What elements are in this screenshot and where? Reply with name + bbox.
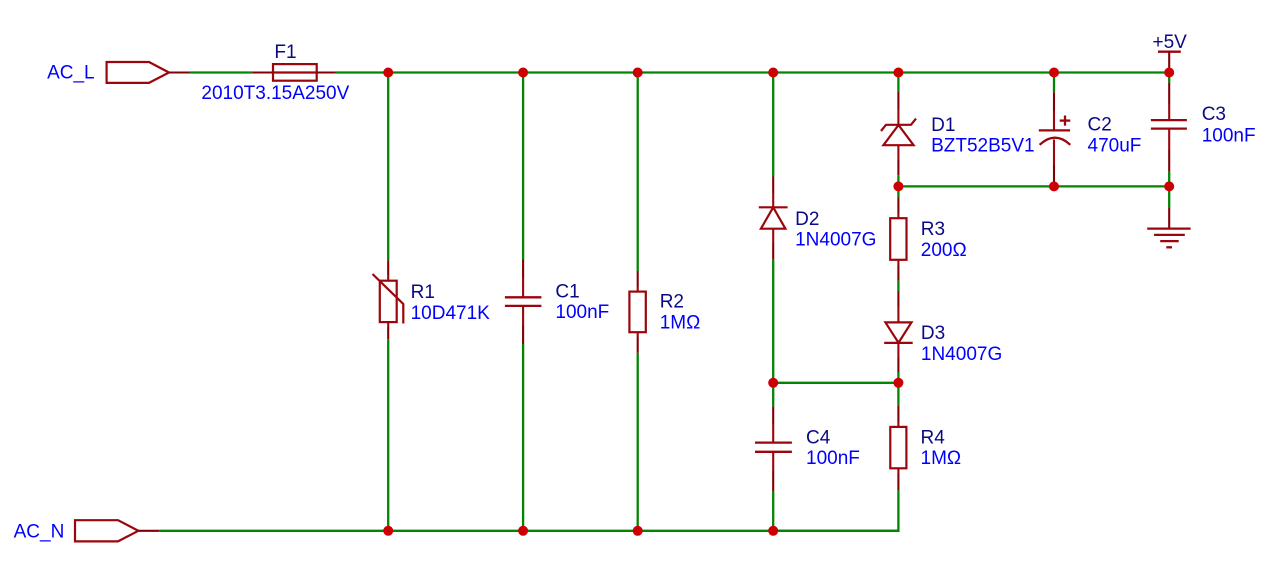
svg-text:C3: C3 <box>1202 104 1226 125</box>
junction node (388.2,530.8) <box>383 526 393 536</box>
svg-text:1N4007G: 1N4007G <box>795 230 876 251</box>
ground bar 4 <box>1166 246 1172 248</box>
wire mid horizontal <box>898 185 1169 187</box>
wire bottom main <box>159 530 898 532</box>
varistor R1 body <box>380 281 397 322</box>
svg-text:100nF: 100nF <box>1202 126 1256 147</box>
port AC_N <box>75 520 138 541</box>
resistor R2 body <box>629 292 645 333</box>
wire C3 bottom <box>1168 171 1170 186</box>
svg-text:470uF: 470uF <box>1088 135 1142 156</box>
svg-text:F1: F1 <box>274 42 296 63</box>
wire R2 branch bottom <box>637 353 639 531</box>
svg-text:C4: C4 <box>806 427 831 448</box>
pin of AC_N <box>138 530 159 532</box>
svg-text:C2: C2 <box>1088 114 1112 135</box>
capacitor C1 plates <box>505 296 542 298</box>
wire C4 top <box>772 383 774 407</box>
svg-text:AC_N: AC_N <box>14 521 65 542</box>
svg-text:D1: D1 <box>931 115 955 136</box>
wire R4 top <box>897 383 899 406</box>
wire D1 branch top <box>897 73 899 93</box>
junction node (898.4,72.5) <box>893 68 903 78</box>
wire D3 bottom <box>897 372 899 383</box>
svg-text:2010T3.15A250V: 2010T3.15A250V <box>201 83 349 104</box>
diode D2 anode pin <box>772 229 774 243</box>
svg-text:D2: D2 <box>795 209 819 230</box>
ground bar 1 <box>1147 227 1190 229</box>
power +5V stem <box>1168 52 1170 73</box>
capacitor C2 plus sign <box>1060 119 1071 121</box>
diode D2 cathode pin <box>772 177 774 194</box>
resistor R3 body <box>890 218 906 260</box>
wire D1 bottom <box>897 175 899 186</box>
zener D1 cathode pin <box>897 92 899 109</box>
varistor R1 top pin <box>387 260 389 275</box>
svg-text:+5V: +5V <box>1153 32 1188 53</box>
zener D1 anode pin <box>897 145 899 160</box>
resistor R4 body <box>890 427 906 468</box>
diode D2 triangle <box>761 207 786 228</box>
wire C3 branch top <box>1168 73 1170 83</box>
port AC_L <box>107 62 169 83</box>
junction node (388.2,72.5) <box>383 68 393 78</box>
junction node (898.4,186.4) <box>893 181 903 191</box>
capacitor C2 curved plate <box>1040 138 1071 145</box>
wire lower horizontal <box>773 382 898 384</box>
junction node (1169.2,72.5) <box>1164 68 1174 78</box>
capacitor C2 top plate <box>1039 129 1070 131</box>
junction node (523.1,530.8) <box>518 526 528 536</box>
ground stem <box>1168 207 1170 228</box>
wire C1 branch bottom <box>522 344 524 531</box>
wire D2 branch top <box>772 73 774 177</box>
capacitor C1 bottom pin <box>522 306 524 326</box>
svg-text:1MΩ: 1MΩ <box>660 313 701 334</box>
zener D1 bar <box>881 119 916 131</box>
junction node (523.1,72.5) <box>518 68 528 78</box>
diode D3 anode pin <box>897 291 899 307</box>
junction node (1054,72.5) <box>1049 68 1059 78</box>
svg-text:R1: R1 <box>411 282 435 303</box>
svg-text:100nF: 100nF <box>555 302 609 323</box>
svg-text:10D471K: 10D471K <box>411 303 491 324</box>
wire top main <box>336 71 1170 73</box>
ground bar 2 <box>1154 234 1185 236</box>
svg-text:AC_L: AC_L <box>47 63 95 84</box>
svg-text:1MΩ: 1MΩ <box>921 448 962 469</box>
diode D2 cathode bar <box>759 206 788 208</box>
fuse F1 right pin <box>317 71 336 73</box>
resistor R3 top pin <box>897 198 899 214</box>
junction node (773.2,72.5) <box>768 68 778 78</box>
svg-text:BZT52B5V1: BZT52B5V1 <box>931 136 1035 157</box>
wire AC_L to F1 <box>190 71 253 73</box>
capacitor C3 top pin <box>1168 83 1170 104</box>
diode D3 triangle <box>885 322 911 342</box>
capacitor C4 top pin <box>772 406 774 424</box>
svg-text:200Ω: 200Ω <box>921 240 967 261</box>
fuse F1 left pin <box>252 71 273 73</box>
wire R1 branch top <box>387 73 389 261</box>
wire D2 branch bottom <box>772 259 774 383</box>
capacitor C2 bottom pin <box>1053 140 1055 166</box>
junction node (898.4,382.8) <box>893 378 903 388</box>
wire R3 to D3 <box>897 281 899 291</box>
wire R3 top <box>897 186 899 197</box>
svg-text:1N4007G: 1N4007G <box>921 344 1002 365</box>
capacitor C2 top pin <box>1053 92 1055 111</box>
wire C1 branch top <box>522 73 524 260</box>
zener D1 triangle <box>883 125 913 145</box>
svg-text:D3: D3 <box>921 323 945 344</box>
junction node (773.2,530.8) <box>768 526 778 536</box>
wire C2 branch top <box>1053 73 1055 93</box>
pin of AC_L <box>169 71 190 73</box>
svg-text:R3: R3 <box>921 219 945 240</box>
capacitor C4 plates <box>755 441 792 443</box>
resistor R2 bottom pin <box>637 332 639 337</box>
wire C4 bottom <box>772 491 774 531</box>
resistor R4 bottom pin <box>897 468 899 473</box>
ground bar 3 <box>1160 240 1179 242</box>
resistor R2 top pin <box>637 271 639 287</box>
svg-text:C1: C1 <box>555 282 579 303</box>
resistor R3 bottom pin <box>897 260 899 265</box>
svg-text:R2: R2 <box>660 292 684 313</box>
junction node (637.7,72.5) <box>633 68 643 78</box>
wire to ground <box>1168 186 1170 207</box>
junction node (1169.2,186.4) <box>1164 181 1174 191</box>
svg-text:R4: R4 <box>921 428 946 449</box>
power +5V bar <box>1158 51 1181 53</box>
diode D3 cathode bar <box>884 342 913 344</box>
svg-text:100nF: 100nF <box>806 448 860 469</box>
wire R2 branch top <box>637 73 639 272</box>
junction node (1054,186.4) <box>1049 181 1059 191</box>
wire R4 bottom to corner <box>773 490 898 531</box>
capacitor C4 bottom pin <box>772 452 774 471</box>
fuse F1 body <box>273 64 317 81</box>
capacitor C3 bottom pin <box>1168 129 1170 150</box>
junction node (773.2,382.8) <box>768 378 778 388</box>
diode D3 cathode pin <box>897 343 899 357</box>
resistor R4 top pin <box>897 406 899 422</box>
varistor R1 bottom pin <box>387 322 389 327</box>
capacitor C1 top pin <box>522 260 524 278</box>
wire R1 branch bottom <box>387 340 389 531</box>
junction node (637.7,530.8) <box>633 526 643 536</box>
capacitor C3 plates <box>1151 119 1187 121</box>
